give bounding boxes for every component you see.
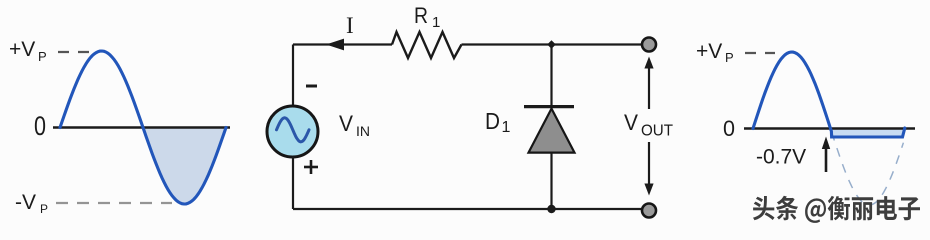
svg-text:1: 1 <box>432 14 440 31</box>
svg-text:0: 0 <box>34 111 46 141</box>
svg-text:P: P <box>40 202 48 216</box>
svg-text:-0.7V: -0.7V <box>756 146 806 169</box>
svg-text:V: V <box>624 110 638 135</box>
svg-text:I: I <box>346 13 354 38</box>
svg-text:R: R <box>414 3 428 28</box>
svg-text:+V: +V <box>696 40 722 63</box>
svg-text:P: P <box>725 50 734 65</box>
svg-text:V: V <box>339 111 353 136</box>
svg-text:OUT: OUT <box>641 123 674 140</box>
svg-text:IN: IN <box>356 123 370 139</box>
svg-text:1: 1 <box>502 119 511 136</box>
svg-text:+V: +V <box>9 38 35 61</box>
svg-text:0: 0 <box>723 116 735 141</box>
svg-text:-V: -V <box>15 191 36 214</box>
svg-text:D: D <box>485 108 500 134</box>
svg-text:P: P <box>38 49 47 64</box>
